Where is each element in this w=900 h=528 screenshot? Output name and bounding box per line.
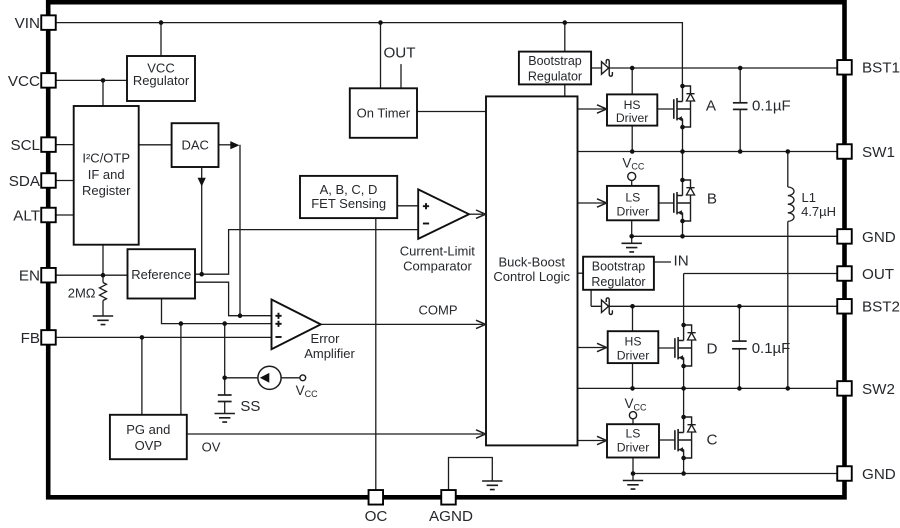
svg-text:SS: SS bbox=[240, 398, 260, 415]
svg-text:A: A bbox=[706, 98, 717, 115]
svg-text:0.1µF: 0.1µF bbox=[752, 98, 791, 115]
svg-text:Driver: Driver bbox=[616, 111, 649, 125]
svg-text:Comparator: Comparator bbox=[403, 258, 472, 273]
svg-text:LS: LS bbox=[626, 426, 641, 440]
svg-text:SCL: SCL bbox=[10, 137, 40, 154]
svg-text:C: C bbox=[707, 432, 718, 449]
svg-text:Current-Limit: Current-Limit bbox=[400, 244, 476, 259]
svg-text:OUT: OUT bbox=[383, 45, 415, 62]
svg-text:Driver: Driver bbox=[617, 440, 650, 454]
svg-text:SDA: SDA bbox=[9, 173, 41, 190]
svg-text:GND: GND bbox=[862, 229, 896, 246]
svg-text:DAC: DAC bbox=[181, 138, 208, 153]
svg-text:Bootstrap: Bootstrap bbox=[528, 54, 582, 68]
svg-text:EN: EN bbox=[19, 268, 40, 285]
svg-text:VCC: VCC bbox=[8, 73, 40, 90]
svg-text:IF and: IF and bbox=[88, 167, 125, 182]
svg-text:Register: Register bbox=[82, 183, 131, 198]
svg-text:FET Sensing: FET Sensing bbox=[311, 196, 386, 211]
svg-text:HS: HS bbox=[624, 98, 641, 112]
svg-text:Buck-Boost: Buck-Boost bbox=[498, 255, 565, 270]
svg-text:2MΩ: 2MΩ bbox=[68, 285, 96, 300]
svg-text:COMP: COMP bbox=[419, 303, 458, 318]
svg-text:Error: Error bbox=[311, 331, 341, 346]
svg-text:Reference: Reference bbox=[131, 267, 191, 282]
svg-text:Amplifier: Amplifier bbox=[304, 346, 355, 361]
svg-text:Control Logic: Control Logic bbox=[493, 269, 570, 284]
svg-text:SW1: SW1 bbox=[862, 144, 895, 161]
svg-text:AGND: AGND bbox=[429, 508, 473, 523]
svg-text:OC: OC bbox=[365, 508, 388, 523]
svg-text:0.1µF: 0.1µF bbox=[752, 340, 791, 357]
svg-text:OV: OV bbox=[202, 440, 221, 455]
svg-text:Regulator: Regulator bbox=[528, 70, 582, 84]
svg-text:OUT: OUT bbox=[862, 266, 894, 283]
svg-text:BST2: BST2 bbox=[862, 299, 900, 316]
svg-text:GND: GND bbox=[862, 466, 896, 483]
svg-text:VIN: VIN bbox=[15, 15, 40, 32]
svg-text:B: B bbox=[707, 191, 717, 208]
svg-text:ALT: ALT bbox=[13, 207, 40, 224]
svg-text:On Timer: On Timer bbox=[357, 105, 411, 120]
svg-text:BST1: BST1 bbox=[862, 60, 900, 77]
svg-text:Bootstrap: Bootstrap bbox=[592, 260, 646, 274]
svg-text:Driver: Driver bbox=[617, 348, 650, 362]
svg-text:Regulator: Regulator bbox=[591, 275, 645, 289]
svg-text:IN: IN bbox=[674, 252, 689, 269]
svg-text:SW2: SW2 bbox=[862, 381, 895, 398]
svg-text:A, B, C, D: A, B, C, D bbox=[320, 182, 378, 197]
svg-text:Driver: Driver bbox=[617, 205, 650, 219]
svg-text:PG and: PG and bbox=[126, 422, 170, 437]
svg-text:D: D bbox=[707, 340, 718, 357]
svg-text:Regulator: Regulator bbox=[133, 73, 190, 88]
svg-text:HS: HS bbox=[625, 335, 642, 349]
svg-text:I²C/OTP: I²C/OTP bbox=[82, 151, 130, 166]
svg-text:L1: L1 bbox=[802, 190, 816, 205]
svg-text:OVP: OVP bbox=[135, 438, 162, 453]
svg-text:LS: LS bbox=[625, 191, 640, 205]
svg-text:4.7µH: 4.7µH bbox=[801, 204, 836, 219]
svg-text:FB: FB bbox=[21, 330, 40, 347]
